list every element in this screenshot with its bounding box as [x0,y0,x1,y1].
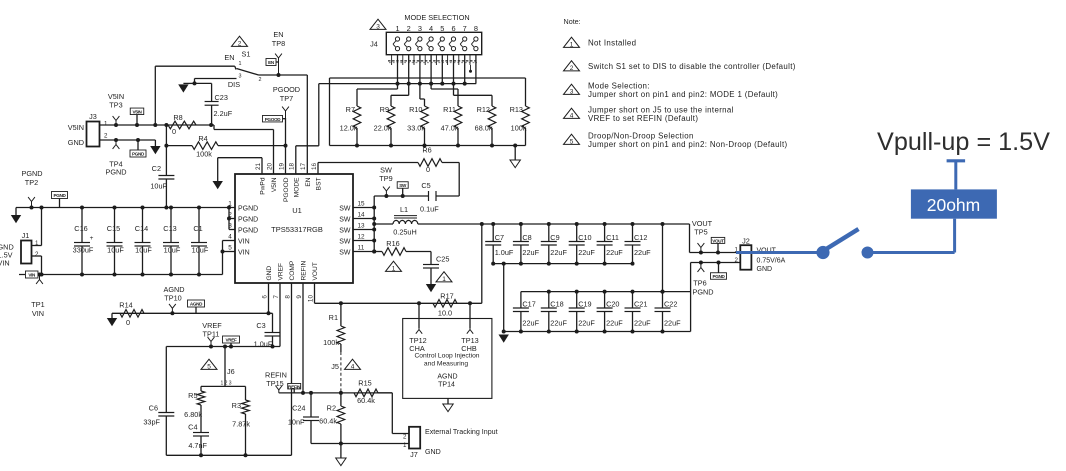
svg-text:C7: C7 [495,233,504,242]
svg-text:C25: C25 [436,255,449,264]
svg-text:VIN: VIN [28,273,36,278]
svg-text:V5IN: V5IN [132,109,142,114]
svg-text:GND: GND [425,448,441,456]
note triangle 4 [564,108,580,118]
capacitor C6 [165,347,167,413]
svg-text:TP7: TP7 [280,94,293,103]
svg-text:VIN: VIN [0,259,10,268]
svg-text:PGND: PGND [21,169,42,178]
svg-text:4: 4 [570,112,574,119]
net label VREF [223,336,240,343]
svg-text:C11: C11 [606,233,619,242]
svg-text:TP14: TP14 [438,382,455,389]
svg-text:22.0k: 22.0k [374,124,392,133]
connector J3 [87,122,100,147]
svg-text:PGND: PGND [238,217,258,224]
test point TP4 [115,140,117,145]
svg-text:2.2uF: 2.2uF [214,109,233,118]
svg-text:100k: 100k [511,124,527,133]
net label VIN [25,271,38,278]
svg-text:EN: EN [224,53,234,62]
ground agnd R13 [514,146,516,161]
svg-text:10uF: 10uF [150,182,167,191]
svg-text:VIN: VIN [238,239,250,246]
svg-text:11: 11 [358,244,365,251]
svg-text:330uF: 330uF [73,246,94,255]
resistor R11 [430,84,432,89]
resistor R3 [245,386,247,400]
svg-text:C23: C23 [215,93,228,102]
svg-text:AGND: AGND [437,374,457,381]
svg-text:R10: R10 [409,105,422,114]
resistor R7 [397,84,399,89]
connector J1 [21,241,32,264]
svg-text:VIN: VIN [32,309,44,318]
svg-text:R17: R17 [440,292,453,301]
svg-text:Vpull-up = 1.5V: Vpull-up = 1.5V [877,128,1050,156]
svg-text:PGOOD: PGOOD [283,177,290,202]
svg-text:REFIN: REFIN [288,384,301,389]
svg-text:TP6: TP6 [693,279,706,288]
wire PGND top bus [16,207,235,209]
capacitor C23 [195,82,212,84]
test point TP9 [385,191,387,196]
svg-text:TP10: TP10 [164,294,181,303]
svg-text:22uF: 22uF [606,248,623,257]
svg-text:3: 3 [376,23,380,30]
svg-text:R16: R16 [386,239,399,248]
svg-text:J2: J2 [742,237,750,246]
test point TP11 [210,342,212,347]
svg-text:12.0k: 12.0k [340,124,358,133]
svg-text:PGND: PGND [692,288,713,297]
wire J2 pin2 PGND [691,262,741,264]
svg-text:5: 5 [207,363,211,370]
svg-text:22uF: 22uF [522,248,539,257]
wire MODE link to pin 18 [296,145,319,147]
svg-text:SW: SW [339,250,351,257]
resistor R16 [372,250,376,254]
test point TP3 [115,121,117,126]
svg-text:C21: C21 [634,300,647,309]
stub with ball [470,65,472,71]
wire J1 pin2 to VIN bus [32,255,42,257]
net label PGND [130,150,146,157]
wire AGND line [112,312,273,314]
svg-text:C22: C22 [664,300,677,309]
svg-text:SW: SW [339,228,351,235]
svg-text:C5: C5 [421,181,430,190]
resistor R12 [453,84,455,96]
svg-text:3: 3 [239,74,242,80]
svg-text:J4: J4 [370,40,378,49]
capacitor C10 [576,224,578,242]
svg-text:PGND: PGND [712,274,725,279]
op-amp U1 TPS53317RGB body [235,174,353,283]
svg-text:12: 12 [357,233,365,240]
wire switch pin3 to gnd [195,78,237,80]
resistor R10 [419,84,421,99]
connector J2 [740,245,751,270]
svg-text:10uF: 10uF [107,246,124,255]
svg-text:TP3: TP3 [109,101,122,110]
svg-text:22uF: 22uF [634,248,651,257]
svg-text:9: 9 [296,295,303,299]
wire J6 bottom rail / pin8 COMP [166,454,291,456]
wire U1 left pin stubs [229,218,235,220]
svg-text:2: 2 [259,77,262,83]
svg-text:VOUT: VOUT [712,239,724,244]
resistor R6 [317,163,319,175]
svg-text:R1: R1 [329,313,338,322]
wire resistor bottom rail [330,145,526,147]
capacitor C3 [272,313,274,332]
note triangle 3 [370,19,386,29]
resistor R17 [417,301,421,305]
capacitor C20 [604,292,606,308]
svg-text:10uF: 10uF [164,246,181,255]
test point TP6 [700,263,702,268]
capacitor C2 riser [165,125,167,176]
capacitor C14 [142,208,144,243]
svg-text:10uF: 10uF [192,246,209,255]
blue supply T bar [947,159,966,162]
wire row1 bottom rail [493,263,632,265]
svg-text:TP1: TP1 [31,300,44,309]
wire J1 pin1 to PGND bus [32,245,42,247]
svg-text:2: 2 [238,40,242,47]
svg-text:0: 0 [126,318,130,327]
svg-text:10nF: 10nF [288,418,305,427]
note triangle 3 [564,84,580,94]
test point TP12 [418,303,420,328]
note triangle 2 [564,61,580,71]
ground agnd R2 [340,444,342,459]
svg-text:TP8: TP8 [272,39,285,48]
svg-text:REFIN: REFIN [301,260,308,280]
svg-text:C12: C12 [634,233,647,242]
svg-text:TP11: TP11 [203,330,220,339]
svg-text:3: 3 [570,88,574,95]
note triangle 2 [232,36,248,46]
svg-text:R15: R15 [358,379,371,388]
svg-text:C14: C14 [135,224,148,233]
capacitor C25 [430,252,432,265]
svg-text:PwPd: PwPd [260,177,267,195]
wire V5IN to pin 20 [211,124,214,126]
svg-text:20ohm: 20ohm [927,195,981,215]
resistor R9 [408,84,410,96]
svg-text:U1: U1 [292,206,302,215]
resistor R13 [522,106,530,128]
svg-text:C8: C8 [522,233,531,242]
ground pgnd J3 [154,140,156,146]
svg-text:21: 21 [255,162,262,170]
svg-text:100k: 100k [323,338,339,347]
wire C22 riser from VOUT rail [662,224,664,292]
net label PGOOD [263,115,283,122]
svg-text:22uF: 22uF [664,319,681,328]
svg-text:TP2: TP2 [25,178,38,187]
test point TP13 [469,303,471,328]
svg-text:2: 2 [35,251,39,258]
ground pgnd DIS [178,84,188,92]
svg-text:PGND: PGND [53,193,66,198]
svg-text:EN: EN [268,60,275,65]
svg-text:J3: J3 [89,112,97,121]
wire V5IN rail [100,124,212,126]
svg-text:5: 5 [570,138,574,145]
blue wire left segment [736,251,818,254]
svg-text:J7: J7 [410,450,418,459]
svg-text:4: 4 [228,233,232,240]
svg-text:and Measuring: and Measuring [424,361,469,368]
note triangle 1 [386,261,402,271]
svg-text:PGND: PGND [105,168,126,177]
test point TP10 [171,308,173,313]
svg-text:COMP: COMP [289,260,296,280]
svg-text:R14: R14 [119,301,132,310]
svg-text:C16: C16 [74,224,87,233]
svg-text:7.87k: 7.87k [232,420,250,429]
connector J7 [409,427,420,449]
connector J4 [386,32,481,54]
capacitor C15 [114,208,116,243]
svg-text:60.4k: 60.4k [319,417,337,426]
svg-text:V5IN: V5IN [271,177,278,192]
svg-text:TPS53317RGB: TPS53317RGB [271,225,323,234]
capacitor C5 [428,191,430,201]
svg-text:PGND: PGND [132,152,145,157]
svg-text:18: 18 [289,162,296,170]
capacitor C18 [548,292,550,308]
svg-text:R8: R8 [173,113,182,122]
net label V5IN [130,108,144,115]
capacitor C11 [604,224,606,242]
svg-text:V5IN: V5IN [68,123,84,132]
svg-text:22uF: 22uF [522,319,539,328]
measurement box TP12 TP13 [403,319,492,399]
capacitor C9 [548,224,550,242]
svg-text:0.1uF: 0.1uF [420,205,439,214]
svg-text:22uF: 22uF [578,248,595,257]
wire row2 top rail [521,291,691,293]
svg-text:GND: GND [266,266,273,281]
svg-text:C3: C3 [256,321,265,330]
capacitor C4 [200,405,202,433]
capacitor C12 [632,224,634,242]
svg-text:MODE SELECTION: MODE SELECTION [404,13,469,22]
wire EN net to TP8 and pin17 [259,74,308,76]
capacitor C24 [309,391,313,395]
net label VOUT [711,237,725,243]
svg-text:TP9: TP9 [379,174,392,183]
svg-text:100k: 100k [196,150,212,159]
svg-text:VIN: VIN [238,250,250,257]
svg-text:0.75V/6A: 0.75V/6A [757,258,786,265]
svg-text:2: 2 [570,65,574,72]
svg-text:GND: GND [68,138,84,147]
svg-text:68.0k: 68.0k [475,124,493,133]
wire to switch [155,65,235,67]
svg-text:EN: EN [273,30,283,39]
svg-text:4: 4 [351,363,355,370]
net label AGND [188,300,205,307]
resistor R5 [200,386,202,391]
ground pgnd C25 [426,284,436,292]
svg-text:S1: S1 [242,50,251,59]
resistor R15 [354,389,378,397]
svg-text:6.80k: 6.80k [184,410,202,419]
svg-text:2: 2 [403,434,407,441]
svg-text:MODE: MODE [293,177,300,197]
capacitor C22 [662,292,664,308]
capacitor C16 [81,208,83,243]
inductor L1 [372,222,376,226]
svg-text:C15: C15 [107,224,120,233]
svg-text:PGOOD: PGOOD [273,85,300,94]
svg-text:20: 20 [266,162,273,170]
svg-text:22uF: 22uF [550,248,567,257]
wire SW to C5 [374,195,428,197]
wire pin6 GND riser [268,283,270,313]
svg-text:7: 7 [273,295,280,299]
net label REFIN [288,383,301,389]
svg-text:EN: EN [305,177,312,186]
tiny label band under J4 [388,60,478,62]
svg-text:SW: SW [339,239,351,246]
svg-text:GND: GND [757,266,773,273]
svg-text:1: 1 [570,41,574,48]
capacitor C7 [492,224,494,242]
test point TP1 [39,275,41,280]
svg-text:PGND: PGND [238,228,258,235]
svg-text:Switch S1 set to DIS to disabl: Switch S1 set to DIS to disable the cont… [588,62,796,71]
svg-text:L1: L1 [400,205,408,214]
capacitor C17 [520,292,522,308]
svg-text:SW: SW [339,217,351,224]
resistor R14 [120,310,144,318]
svg-text:Jumper short on pin1 and pin2:: Jumper short on pin1 and pin2: Non-Droop… [588,140,788,149]
svg-text:C18: C18 [550,300,563,309]
svg-text:22uF: 22uF [606,319,623,328]
svg-text:VREF to set REFIN (Default): VREF to set REFIN (Default) [588,114,698,123]
svg-text:10: 10 [307,295,314,303]
svg-text:0: 0 [172,127,176,136]
wire J6 rail [201,385,246,387]
wire VOUT drop to J2 [689,224,691,253]
svg-text:R4: R4 [198,134,207,143]
wire rail B (mode select) [319,83,476,85]
note triangle 5 [201,359,217,369]
capacitor C2 [158,175,174,177]
ground pgnd pin21 [213,181,223,189]
svg-text:0.25uH: 0.25uH [393,228,417,237]
svg-text:47.0k: 47.0k [441,124,459,133]
svg-text:R12: R12 [477,105,490,114]
svg-text:14: 14 [357,211,365,218]
svg-text:16: 16 [311,162,318,170]
ground pgnd output [499,335,509,343]
svg-text:1: 1 [442,276,446,283]
svg-text:C17: C17 [522,300,535,309]
wire pin9 REFIN riser [302,283,304,393]
svg-text:AGND: AGND [190,302,203,307]
capacitor C19 [576,292,578,308]
svg-text:4.7nF: 4.7nF [188,441,207,450]
svg-text:TP15: TP15 [266,379,283,388]
ground agnd TP14 [447,398,449,404]
svg-text:VREF: VREF [225,338,237,343]
svg-text:17: 17 [300,162,307,170]
wire pin7 VREF riser [279,283,281,347]
wire row2 bottom rail [504,331,691,333]
note triangle 1b [436,272,452,282]
svg-text:C2: C2 [152,164,161,173]
svg-text:10uF: 10uF [135,246,152,255]
test point TP15 [278,390,280,393]
svg-text:Note:: Note: [564,17,581,26]
svg-text:15: 15 [357,200,365,207]
svg-text:Control Loop Injection: Control Loop Injection [414,353,479,360]
wire C24 bottom to J7 pin1 [311,443,409,445]
capacitor C8 [520,224,522,242]
svg-text:C13: C13 [163,224,176,233]
svg-text:PGND: PGND [238,206,258,213]
svg-text:22uF: 22uF [578,319,595,328]
wire J3 pin2 GND [100,139,156,141]
net label SW [397,182,408,189]
blue switch [816,246,829,259]
note triangle 1 [564,37,580,47]
svg-text:Jumper short on pin1 and pin2:: Jumper short on pin1 and pin2: MODE 1 (D… [588,90,778,99]
wire REFIN line [279,392,393,394]
svg-text:TP5: TP5 [694,228,707,237]
svg-text:13: 13 [357,222,365,229]
svg-text:1 2 3: 1 2 3 [220,381,231,387]
svg-text:1.0uF: 1.0uF [495,248,514,257]
svg-text:60.4k: 60.4k [357,396,375,405]
svg-text:8: 8 [284,295,291,299]
svg-text:R5: R5 [188,391,197,400]
svg-text:5: 5 [228,244,232,251]
blue wire below box [953,219,956,253]
svg-text:1: 1 [403,442,407,449]
svg-text:33pF: 33pF [143,418,160,427]
svg-text:6: 6 [261,295,268,299]
test point TP5 [700,248,702,253]
svg-text:R11: R11 [443,105,456,114]
svg-text:0: 0 [426,165,430,174]
ground pgnd bus left [15,208,17,216]
resistor R4 [164,144,168,148]
svg-text:10.0: 10.0 [438,309,452,318]
svg-text:J6: J6 [227,367,235,376]
svg-text:J5: J5 [331,362,339,371]
svg-text:C6: C6 [149,404,158,413]
resistor R8 [168,121,196,129]
capacitor C1 [198,208,200,243]
svg-text:1: 1 [392,265,396,272]
svg-text:C24: C24 [292,404,305,413]
svg-text:19: 19 [278,162,285,170]
svg-text:C10: C10 [578,233,591,242]
svg-text:J1: J1 [22,231,30,240]
svg-text:SW: SW [339,206,351,213]
capacitor C13 [170,208,172,243]
svg-text:C9: C9 [550,233,559,242]
net label EN [266,59,276,66]
